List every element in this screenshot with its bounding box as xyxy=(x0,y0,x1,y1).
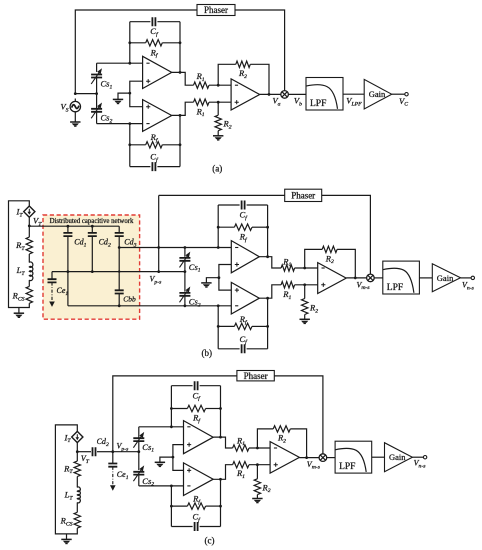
wire Cs1 to opamp1 inverting xyxy=(97,62,143,64)
multiplier A xyxy=(281,91,289,99)
wire R1 to diff noninverting B xyxy=(295,284,318,286)
node ground bus A xyxy=(128,92,131,95)
ground opamp bus A xyxy=(113,98,123,100)
wire Vs bottom stub xyxy=(74,112,76,122)
node Rf right C xyxy=(219,407,222,410)
resistor Rf bottom A xyxy=(130,144,146,146)
Phaser block B xyxy=(285,189,322,201)
variable capacitor Cs2 C xyxy=(138,452,140,470)
node opamp1 out C xyxy=(219,436,222,439)
svg-text:Phaser: Phaser xyxy=(244,371,268,381)
node diff out B xyxy=(354,277,357,280)
wire R1 to diff inverting C xyxy=(249,447,270,449)
wire source loop left B xyxy=(9,201,30,308)
capacitor Cd3 B xyxy=(118,226,120,233)
wire LT to RCS C xyxy=(76,502,78,512)
node Rf left C xyxy=(170,407,173,410)
op-amp B1 xyxy=(231,241,259,273)
resistor RT C xyxy=(74,461,80,476)
node Cd2 top B xyxy=(91,225,94,228)
capacitor Cf top A xyxy=(130,21,180,23)
node diff out A xyxy=(268,93,271,96)
variable capacitor Cs1 B xyxy=(184,248,186,257)
node left rail top B xyxy=(217,246,220,249)
capacitor Cf bottom B xyxy=(218,348,267,350)
wire Cs branch lower xyxy=(96,94,98,109)
node Rf bottom right A xyxy=(179,143,182,146)
wire Cs2 to opamp2 inverting C xyxy=(139,485,184,487)
variable capacitor Cs1 C xyxy=(138,441,140,452)
wire diff out to multiplier B xyxy=(346,277,367,279)
node Cs2 bottom B xyxy=(184,304,187,307)
svg-text:Phaser: Phaser xyxy=(204,5,228,15)
variable capacitor Cs2 B xyxy=(184,272,186,292)
wire phaser tap B xyxy=(158,195,160,271)
Phaser block C xyxy=(237,371,274,381)
wire ground bus stub B xyxy=(206,278,219,283)
resistor R2 feedback B xyxy=(305,249,323,268)
node Cs mid C xyxy=(137,450,140,453)
op-amp B3 difference xyxy=(318,263,347,294)
wire Phaser to multiplier B xyxy=(322,195,371,274)
wire multiplier to LPF A xyxy=(288,93,306,95)
variable capacitor Cs1 A xyxy=(96,63,98,72)
wire feedback rail right top B xyxy=(267,205,269,257)
capacitor Ce1 B xyxy=(51,272,53,280)
svg-text:LPF: LPF xyxy=(310,99,326,109)
resistor R1 bottom A xyxy=(194,99,210,105)
wire R1 to diff inverting B xyxy=(295,267,318,269)
svg-text:LPF: LPF xyxy=(339,462,355,472)
node Rf bottom left B xyxy=(217,325,220,328)
resistor Rf top A xyxy=(130,42,146,44)
terminal Vns B xyxy=(471,276,474,279)
wire Cs branch upper xyxy=(96,76,98,94)
inductor LT C xyxy=(77,487,80,503)
node Cs1 top B xyxy=(184,246,187,249)
svg-text:Cbb: Cbb xyxy=(123,295,136,304)
wire LT to RCS B xyxy=(28,280,30,286)
multiplier C xyxy=(319,454,327,462)
wire VPs to Cs branch C xyxy=(113,451,139,453)
node Cd1 top B xyxy=(67,225,70,228)
resistor RT B xyxy=(26,237,32,254)
wire Cs1 to opamp1 inverting C xyxy=(139,426,184,428)
wire multiplier to LPF B xyxy=(374,277,383,279)
capacitor Cbb B xyxy=(118,272,120,291)
resistor R1 top A xyxy=(194,82,210,88)
node VPs C xyxy=(111,450,114,453)
capacitor Cf top B xyxy=(218,204,267,206)
op-amp A3 difference xyxy=(231,79,260,110)
resistor RCS C xyxy=(74,512,80,528)
resistor Rf bottom B xyxy=(218,325,234,327)
variable capacitor Cs2 A xyxy=(96,111,98,123)
svg-text:Phaser: Phaser xyxy=(291,191,315,201)
wire feedback rail left top C xyxy=(170,386,172,427)
wire IT to VT C xyxy=(76,443,78,462)
node opamp2 out xyxy=(179,114,182,117)
node Cd1 bus B xyxy=(67,270,70,273)
LPF block C xyxy=(335,441,372,473)
ground R2 B xyxy=(300,318,310,320)
wire LPF to Gain A xyxy=(343,93,364,95)
op-amp C1 xyxy=(184,421,214,454)
resistor Rf top B xyxy=(218,226,234,228)
ground below Vs xyxy=(70,121,80,123)
node opamp1 out B xyxy=(266,255,269,258)
node VT C xyxy=(76,450,79,453)
node opamp1 out xyxy=(179,71,182,74)
ground opamp bus B xyxy=(201,282,211,284)
ground R2 C xyxy=(252,498,262,500)
wire Cd3 down to bus B xyxy=(118,248,120,272)
node Rf bottom left C xyxy=(170,505,173,508)
resistor RCS B xyxy=(26,286,32,303)
resistor R1 bottom C xyxy=(233,462,249,468)
wire diff out to multiplier A xyxy=(260,93,282,95)
capacitor Ce1 C xyxy=(112,452,114,464)
wire Vs to Cs node xyxy=(75,93,96,95)
wire feedback rail left bottom B xyxy=(217,306,219,349)
terminal Vns C xyxy=(423,456,426,459)
wire opamp1 noninv stub xyxy=(130,81,143,93)
wire ground bus to opamp2 xyxy=(130,93,143,107)
wire Cs2 to opamp2 inverting xyxy=(97,123,143,125)
resistor R1 top C xyxy=(233,445,249,451)
current source IT C xyxy=(72,431,83,442)
svg-text:Distributed capacitive network: Distributed capacitive network xyxy=(50,218,134,225)
resistor R2 ground A xyxy=(217,102,219,115)
wire ground bus stub C xyxy=(160,457,173,462)
node R2 tap top B xyxy=(303,267,306,270)
capacitor Cd2 B xyxy=(91,226,93,233)
resistor R1 top B xyxy=(281,265,295,271)
node VT B xyxy=(28,225,31,228)
resistor R2 feedback A xyxy=(218,64,236,85)
LPF block B xyxy=(383,261,420,294)
node Cs mid A xyxy=(95,92,98,95)
wire bus to bottom line B xyxy=(67,272,69,306)
wire R1 to diff noninverting A xyxy=(209,101,231,103)
wire diff out to multiplier C xyxy=(299,457,319,459)
LPF block A xyxy=(306,78,343,111)
node Cbb bottom B xyxy=(118,304,121,307)
wire multiplier to LPF C xyxy=(326,457,335,459)
node feedback left bottom A xyxy=(128,122,131,125)
resistor Rf bottom C xyxy=(171,505,187,507)
node ground bus C xyxy=(172,456,175,459)
node Rf bottom left A xyxy=(128,143,131,146)
ground arrow Ce1 B xyxy=(51,282,53,303)
wire Vs top stub xyxy=(74,99,76,102)
wire Gain to terminal C xyxy=(412,456,423,458)
capacitor Cd2 C xyxy=(77,451,91,453)
wire feedback rail right bottom B xyxy=(267,298,269,349)
wire feedback rail right bottom C xyxy=(220,479,222,526)
wire feedback rail left bottom A xyxy=(129,124,131,167)
wire Cd3 line to opamp B xyxy=(119,247,231,249)
resistor R2 ground B xyxy=(304,285,306,299)
node opamp2 out C xyxy=(219,478,222,481)
op-amp B2 xyxy=(231,282,259,314)
resistor R1 bottom B xyxy=(281,282,295,288)
svg-text:(b): (b) xyxy=(202,348,213,358)
node R2 tap top A xyxy=(217,84,220,87)
multiplier B xyxy=(367,274,375,282)
op-amp C3 difference xyxy=(270,442,299,474)
node feedback left bottom C xyxy=(170,485,173,488)
wire ground bus to opamp2 C xyxy=(173,457,184,470)
svg-text:Gain: Gain xyxy=(369,89,386,99)
node Cd3 line B xyxy=(118,246,121,249)
Gain block A xyxy=(364,79,392,109)
ground R2 A xyxy=(213,135,223,137)
ground source loop B xyxy=(18,308,20,314)
wire Gain to terminal B xyxy=(461,277,472,279)
wire bottom line B xyxy=(68,305,231,307)
node phaser tap bus B xyxy=(157,270,160,273)
wire LPF to Gain B xyxy=(419,277,432,279)
node R2 tap bottom C xyxy=(256,463,259,466)
resistor R2 ground C xyxy=(256,465,258,479)
wire R1 to diff noninverting C xyxy=(249,464,270,466)
wire Vs to Phaser top rail xyxy=(75,10,197,94)
wire feedback rail left bottom C xyxy=(170,486,172,527)
node bottom rail left B xyxy=(217,304,220,307)
node feedback left top C xyxy=(170,425,173,428)
resistor R2 feedback C xyxy=(257,429,273,448)
Gain block C xyxy=(385,443,413,472)
wire tap to Phaser B xyxy=(159,194,285,196)
wire mid bus VPs B xyxy=(52,271,185,273)
wire IT to VT B xyxy=(28,217,30,237)
Gain block B xyxy=(432,264,460,292)
capacitor Cf top C xyxy=(171,385,220,387)
wire opamp2 out to R1 B xyxy=(259,285,281,298)
node Rf left B xyxy=(217,226,220,229)
node Rf bottom right B xyxy=(266,325,269,328)
node Cs mid B xyxy=(184,270,187,273)
wire opamp2 out to R1 C xyxy=(213,465,232,480)
terminal Vc xyxy=(405,93,408,96)
node Rf bottom right C xyxy=(219,505,222,508)
node diff out C xyxy=(305,456,308,459)
op-amp A1 xyxy=(143,56,172,88)
svg-text:Gain: Gain xyxy=(389,452,406,462)
svg-text:(c): (c) xyxy=(205,535,215,545)
capacitor Cf bottom A xyxy=(130,166,180,168)
wire RT to LT C xyxy=(76,477,78,488)
wire feedback rail left top B xyxy=(217,205,219,248)
node Cd3 bus B xyxy=(118,270,120,272)
svg-text:(a): (a) xyxy=(212,164,222,174)
Phaser block A xyxy=(197,5,235,16)
wire Phaser to multiplier xyxy=(235,10,285,91)
node Cd2 bus B xyxy=(91,270,94,273)
capacitor Cd1 B xyxy=(67,226,69,233)
distributed capacitive network box xyxy=(43,215,140,319)
inductor LT B xyxy=(29,262,33,281)
wire RT to LT B xyxy=(28,254,30,263)
wire feedback rail right top C xyxy=(220,386,222,437)
wire R1 to diff inverting A xyxy=(209,84,231,86)
wire opamp1 out to R1 xyxy=(172,72,194,85)
ground opamp bus C xyxy=(155,461,165,463)
node feedback left top A xyxy=(128,62,131,65)
svg-text:Gain: Gain xyxy=(437,273,454,283)
AC source Vs xyxy=(70,101,80,111)
node R2 tap bottom A xyxy=(217,101,220,104)
wire opamp2 out to R1 xyxy=(172,102,194,115)
op-amp A2 xyxy=(143,100,172,132)
resistor Rf top C xyxy=(171,408,187,410)
wire Gain to terminal A xyxy=(392,93,405,95)
op-amp C2 xyxy=(184,463,214,496)
node Rf right A xyxy=(179,41,182,44)
wire feedback rail right bottom A xyxy=(179,115,181,166)
node opamp2 out B xyxy=(266,297,269,300)
node Rf right B xyxy=(266,226,269,229)
node R2 tap top C xyxy=(256,447,259,450)
node ground bus B xyxy=(218,276,221,279)
wire Phaser to multiplier C xyxy=(274,376,323,454)
wire feedback rail right top A xyxy=(179,22,181,73)
wire VT to cap bus B xyxy=(29,225,119,227)
svg-text:LPF: LPF xyxy=(387,283,403,293)
node R2 tap bottom B xyxy=(303,283,306,286)
wire source loop left C xyxy=(55,425,77,534)
wire LPF to Gain C xyxy=(372,456,385,458)
ground source loop C xyxy=(66,534,68,540)
wire opamp1 noninv stub B xyxy=(219,265,231,278)
wire ground bus to opamp2 B xyxy=(219,278,231,290)
wire ground bus stub xyxy=(118,93,130,99)
wire feedback rail left top A xyxy=(129,22,131,64)
wire opamp1 noninv stub C xyxy=(173,445,184,458)
node phaser tap top B xyxy=(157,246,160,249)
current source IT B xyxy=(24,206,35,217)
node Vs xyxy=(74,92,77,95)
node Rf left A xyxy=(128,41,131,44)
wire VPs up to Phaser C xyxy=(113,376,237,452)
wire opamp1 out to R1 B xyxy=(259,257,281,268)
capacitor Cf bottom C xyxy=(171,526,220,528)
wire opamp1 out to R1 C xyxy=(213,437,232,448)
ground arrow Ce1 C xyxy=(112,467,114,487)
